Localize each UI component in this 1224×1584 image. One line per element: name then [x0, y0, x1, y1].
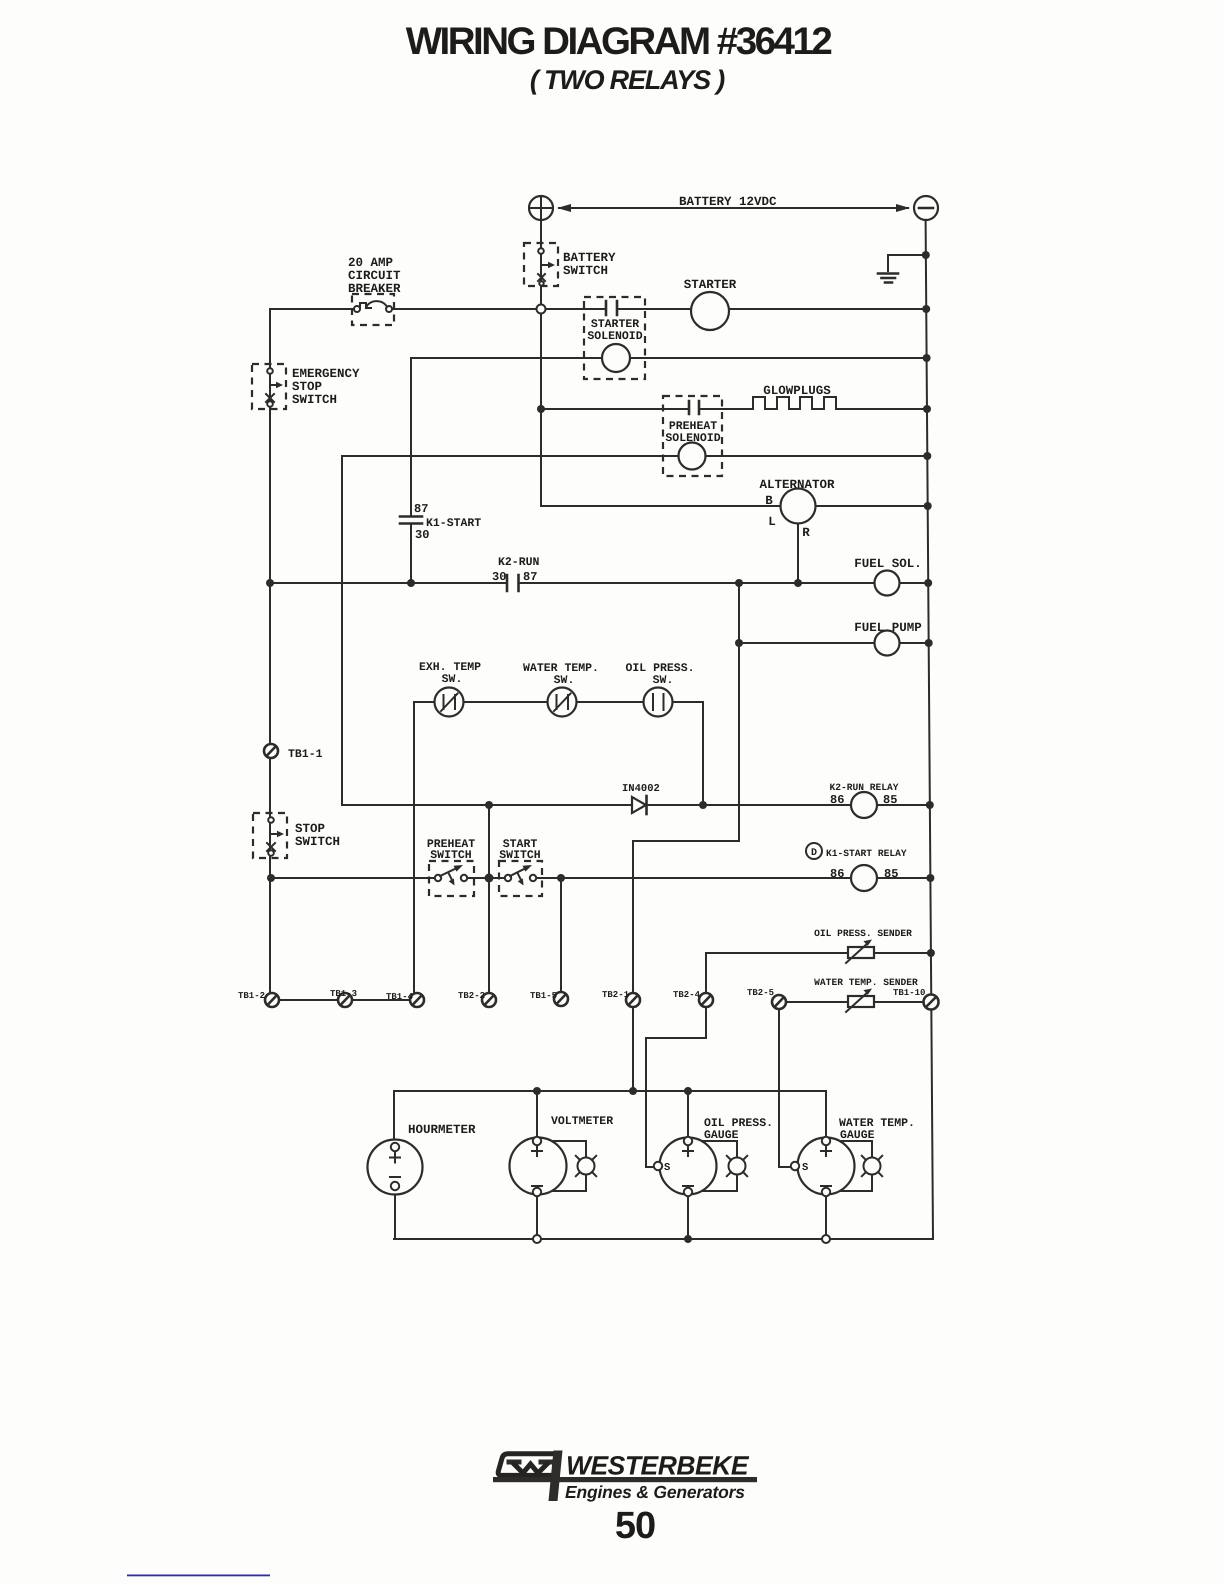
- svg-text:50: 50: [615, 1505, 655, 1547]
- svg-text:TB1-2: TB1-2: [238, 991, 265, 1001]
- svg-text:TB2-1: TB2-1: [602, 990, 630, 1000]
- svg-text:IN4002: IN4002: [622, 783, 660, 795]
- svg-text:TB2-4: TB2-4: [673, 990, 701, 1000]
- svg-text:K1-START RELAY: K1-START RELAY: [826, 848, 907, 859]
- svg-text:STARTER: STARTER: [684, 278, 737, 292]
- svg-text:87: 87: [414, 502, 428, 516]
- svg-text:K2-RUN RELAY: K2-RUN RELAY: [829, 782, 898, 793]
- svg-text:VOLTMETER: VOLTMETER: [551, 1115, 613, 1128]
- svg-text:Engines & Generators: Engines & Generators: [565, 1482, 745, 1502]
- svg-text:S: S: [802, 1162, 808, 1174]
- svg-text:WATER TEMP. SENDER: WATER TEMP. SENDER: [814, 977, 918, 988]
- svg-text:K2-RUN: K2-RUN: [498, 556, 540, 569]
- svg-text:L: L: [768, 515, 776, 529]
- svg-text:STOP: STOP: [292, 380, 322, 394]
- svg-text:86: 86: [830, 867, 844, 881]
- svg-text:S: S: [664, 1162, 670, 1174]
- svg-text:TB1-4: TB1-4: [386, 992, 414, 1002]
- svg-text:( TWO RELAYS ): ( TWO RELAYS ): [530, 65, 725, 95]
- svg-text:D: D: [811, 848, 817, 859]
- svg-text:TB1-3: TB1-3: [330, 989, 357, 999]
- svg-text:86: 86: [830, 793, 844, 807]
- svg-text:BREAKER: BREAKER: [348, 282, 401, 296]
- svg-text:K1-START: K1-START: [426, 517, 481, 530]
- svg-text:FUEL SOL.: FUEL SOL.: [854, 557, 922, 571]
- svg-text:FUEL PUMP: FUEL PUMP: [854, 621, 922, 635]
- svg-text:20 AMP: 20 AMP: [348, 256, 393, 270]
- svg-text:TB1-5: TB1-5: [530, 991, 557, 1001]
- svg-text:STOP: STOP: [295, 822, 325, 836]
- svg-text:B: B: [765, 494, 773, 508]
- svg-text:SOLENOID: SOLENOID: [665, 432, 720, 445]
- svg-text:TB1-1: TB1-1: [288, 748, 323, 761]
- svg-text:GAUGE: GAUGE: [704, 1129, 739, 1142]
- svg-text:HOURMETER: HOURMETER: [408, 1123, 476, 1137]
- svg-text:85: 85: [883, 793, 897, 807]
- svg-text:SW.: SW.: [442, 673, 463, 686]
- svg-text:GAUGE: GAUGE: [840, 1129, 875, 1142]
- svg-text:SWITCH: SWITCH: [292, 393, 337, 407]
- svg-text:BATTERY 12VDC: BATTERY 12VDC: [679, 195, 777, 209]
- svg-text:30: 30: [415, 528, 429, 542]
- svg-text:TB2-5: TB2-5: [747, 988, 774, 998]
- svg-text:ALTERNATOR: ALTERNATOR: [759, 478, 835, 492]
- svg-text:EMERGENCY: EMERGENCY: [292, 367, 360, 381]
- svg-text:TB2-2: TB2-2: [458, 991, 485, 1001]
- svg-text:TB1-10: TB1-10: [893, 988, 925, 998]
- svg-text:SOLENOID: SOLENOID: [587, 330, 642, 343]
- svg-text:30: 30: [492, 570, 506, 584]
- svg-text:GLOWPLUGS: GLOWPLUGS: [763, 384, 831, 398]
- svg-text:SW.: SW.: [653, 674, 674, 687]
- svg-text:87: 87: [523, 570, 537, 584]
- svg-text:WIRING DIAGRAM #36412: WIRING DIAGRAM #36412: [406, 20, 832, 63]
- svg-text:SWITCH: SWITCH: [499, 849, 541, 862]
- svg-text:SW.: SW.: [554, 674, 575, 687]
- svg-text:CIRCUIT: CIRCUIT: [348, 269, 401, 283]
- svg-text:SWITCH: SWITCH: [295, 835, 340, 849]
- svg-text:SWITCH: SWITCH: [430, 849, 472, 862]
- svg-text:BATTERY: BATTERY: [563, 251, 616, 265]
- svg-text:85: 85: [884, 867, 898, 881]
- svg-text:WESTERBEKE: WESTERBEKE: [566, 1451, 750, 1481]
- svg-text:OIL PRESS. SENDER: OIL PRESS. SENDER: [814, 928, 912, 939]
- svg-text:R: R: [802, 526, 810, 540]
- svg-text:SWITCH: SWITCH: [563, 264, 608, 278]
